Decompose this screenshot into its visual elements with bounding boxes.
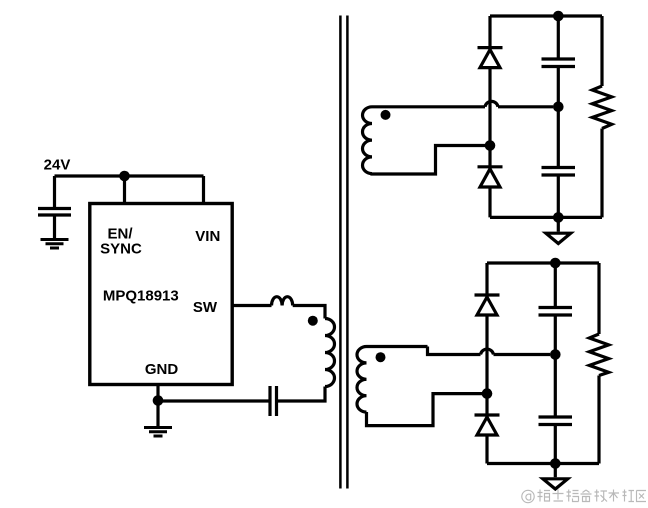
wire C2 to GND node (158, 399, 269, 402)
wire capacitor branch (secondary 2) (554, 263, 557, 464)
watermark (522, 490, 646, 503)
transformer T1 primary winding (325, 319, 335, 387)
wire GND pin (156, 385, 159, 427)
capacitor C3 (secondary 1 top) (542, 59, 576, 67)
transformer T1 secondary winding 2 (357, 347, 428, 413)
wire C1 to ground (53, 217, 56, 239)
svg-text:SYNC: SYNC (100, 241, 142, 258)
op-amp U1 MPQ18913 body (90, 204, 232, 385)
wire resistor branch (secondary 1) (600, 16, 603, 217)
wire L1 to transformer primary (293, 306, 325, 319)
junction dot GND node (153, 395, 164, 406)
diode D4 (secondary 2 bottom) (475, 413, 500, 416)
junction dot bottom rail (secondary 1) (553, 212, 564, 223)
resistor R1 load (secondary 1) (592, 86, 611, 129)
wire crossover hop (secondary 2) (481, 349, 494, 354)
primary phase dot (308, 316, 318, 326)
diode D2 (secondary 1 bottom) (478, 165, 503, 168)
junction dot top rail (secondary 2) (550, 258, 561, 269)
transformer core isolation barrier line 1 (339, 16, 342, 489)
svg-text:24V: 24V (44, 157, 71, 174)
capacitor C6 (secondary 2 bottom) (539, 417, 573, 425)
wire hop to cap node (secondary 2) (494, 353, 551, 356)
svg-text:MPQ18913: MPQ18913 (103, 288, 179, 305)
diode D1 (secondary 1 top) (478, 46, 503, 49)
junction dot on 24V rail (119, 171, 130, 182)
wire bottom rail (secondary 1) (490, 216, 602, 219)
ground (secondary 1) (557, 217, 560, 231)
junction dot diode branch (secondary 1) (485, 140, 496, 151)
wire secondary 1 bottom lead (372, 146, 485, 175)
wire VIN pin drop (202, 176, 205, 205)
transformer T1 secondary winding 1 (363, 107, 486, 174)
svg-text:VIN: VIN (195, 228, 220, 245)
capacitor C5 (secondary 2 top) (539, 308, 573, 316)
transformer core isolation barrier line 2 (346, 16, 349, 489)
junction dot diode branch (secondary 2) (482, 388, 493, 399)
wire top rail (secondary 1) (490, 14, 602, 17)
wire diode branch vertical (secondary 1) (488, 16, 491, 217)
capacitor C1 input bypass (38, 209, 71, 216)
ground (secondary 2) (554, 464, 557, 478)
wire 24V to input capacitor (53, 176, 56, 207)
wire secondary 2 top lead jog (428, 347, 481, 355)
wire hop to cap node (secondary 1) (498, 105, 553, 108)
wire EN/SYNC pin drop (123, 176, 126, 205)
capacitor C4 (secondary 1 bottom) (542, 168, 576, 176)
junction dot bottom rail (secondary 2) (550, 458, 561, 469)
wire SW output (232, 304, 272, 307)
wire top rail (secondary 2) (487, 261, 599, 264)
secondary 2 phase dot (376, 352, 386, 362)
wire crossover hop (secondary 1) (485, 101, 498, 106)
wire diode branch vertical (secondary 2) (485, 263, 488, 464)
ground (IC GND) (144, 428, 172, 437)
junction dot top rail (secondary 1) (553, 11, 564, 22)
wire 24V input rail (55, 174, 204, 177)
ground (input side) (41, 240, 69, 249)
junction dot cap mid node (secondary 1) (553, 102, 564, 113)
wire bottom rail (secondary 2) (487, 462, 599, 465)
capacitor C2 series DC-block (270, 386, 277, 416)
svg-text:SW: SW (193, 299, 218, 316)
secondary 1 phase dot (381, 110, 391, 120)
wire secondary 2 bottom lead (367, 394, 483, 426)
wire resistor branch (secondary 2) (597, 263, 600, 464)
junction dot cap mid node (secondary 2) (550, 349, 561, 360)
svg-text:GND: GND (145, 361, 179, 378)
resistor R2 load (secondary 2) (589, 334, 608, 376)
wire capacitor branch (secondary 1) (557, 16, 560, 217)
diode D3 (secondary 2 top) (475, 293, 500, 296)
inductor L1 (272, 297, 293, 306)
wire primary bottom lead (278, 387, 325, 402)
